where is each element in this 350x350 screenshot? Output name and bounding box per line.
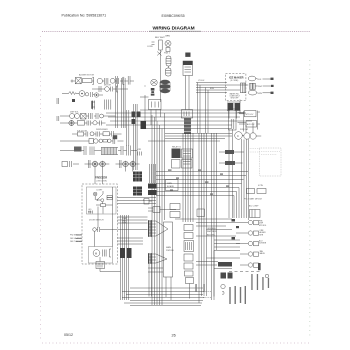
lamp star 2 bbox=[99, 161, 105, 167]
svg-text:MAIN: MAIN bbox=[167, 182, 173, 185]
wire vertical main bbox=[161, 50, 169, 102]
tiny box far left bbox=[144, 199, 149, 205]
vertical bus pair left-mid bbox=[116, 76, 118, 128]
page border dotted bottom bbox=[42, 342, 310, 344]
svg-text:Publication No: 5995813071: Publication No: 5995813071 bbox=[62, 14, 107, 18]
last plug dark label bbox=[258, 263, 261, 270]
top horizontal lines center bbox=[148, 134, 232, 142]
freezer bottom box bbox=[96, 262, 105, 269]
svg-text:(8 CUBE): (8 CUBE) bbox=[231, 80, 239, 82]
compressor circles bbox=[235, 132, 243, 140]
row7 hatch bbox=[113, 137, 115, 144]
svg-text:MAIN: MAIN bbox=[166, 246, 172, 249]
row7 dumbbell bbox=[99, 139, 103, 143]
im feed vertical drops bbox=[198, 83, 209, 134]
bus drop to comb row bbox=[127, 110, 129, 146]
svg-text:DISPENSER: DISPENSER bbox=[96, 129, 108, 131]
connector pair hatched B bbox=[105, 100, 111, 110]
water valve box 1 bbox=[245, 111, 257, 117]
strain relief circle bbox=[165, 41, 171, 47]
freezer sub box pair bbox=[107, 196, 112, 198]
svg-text:26: 26 bbox=[172, 334, 176, 338]
connector hatch pair bbox=[104, 78, 108, 84]
star drops to freezer bbox=[95, 167, 133, 184]
svg-text:VALVE: VALVE bbox=[260, 252, 266, 255]
freezer comp bbox=[101, 204, 106, 207]
connector hatch bbox=[117, 78, 119, 84]
dark dash row bbox=[218, 262, 232, 267]
small box pair bottom bbox=[250, 210, 261, 218]
label above relay bbox=[185, 53, 190, 57]
svg-text:BOARD: BOARD bbox=[167, 185, 175, 188]
freezer switch bbox=[97, 194, 103, 200]
wire fan arrow 2 bbox=[148, 253, 167, 264]
small boxes left bbox=[172, 160, 181, 169]
wire end glyphs bbox=[271, 78, 274, 80]
power cord plug stack bbox=[160, 80, 171, 93]
row3 circle bbox=[85, 93, 88, 96]
lamp star 4 bbox=[130, 161, 136, 167]
row4 crossed box bbox=[81, 114, 87, 120]
freezer cross wires mid bbox=[118, 238, 144, 244]
capsule connector 2 bbox=[166, 68, 172, 76]
feeder lines into C bbox=[150, 164, 156, 183]
crossed box switch bbox=[75, 78, 81, 84]
row7 box+circle bbox=[89, 139, 94, 144]
terminal strip column bbox=[184, 225, 194, 277]
row8 left box bbox=[62, 162, 68, 167]
row4 comp bbox=[96, 113, 98, 119]
freezer dashed box bbox=[82, 184, 118, 264]
tall control box bbox=[164, 222, 173, 277]
thermistor circle bbox=[221, 284, 225, 288]
row2 components bbox=[99, 86, 101, 92]
wire drops from junction bbox=[151, 110, 161, 126]
svg-text:M: M bbox=[95, 252, 97, 255]
ground glyph stack bbox=[151, 88, 155, 91]
svg-text:BLK: BLK bbox=[258, 79, 262, 81]
horizontal harness center-right bbox=[156, 172, 248, 196]
box pair right mid bbox=[247, 189, 255, 194]
bracket right bbox=[121, 146, 123, 155]
lamp star 3 bbox=[120, 160, 129, 168]
svg-text:LIGHT: LIGHT bbox=[97, 190, 104, 192]
power switch capsule bbox=[166, 56, 171, 66]
row2 group circle bbox=[105, 87, 110, 92]
row3 resistor squiggle bbox=[69, 92, 77, 95]
wire fan arrow 1 bbox=[148, 220, 168, 237]
svg-text:C: C bbox=[237, 134, 239, 138]
svg-text:±±: ±± bbox=[144, 86, 146, 88]
fan lower verticals bbox=[148, 264, 163, 297]
im ellipse bbox=[248, 90, 256, 95]
wires from labels to compressor col bbox=[219, 152, 244, 163]
hatched block below junction bbox=[184, 118, 191, 134]
relay cluster dark box bbox=[172, 149, 181, 159]
freezer light sub-box bbox=[87, 187, 117, 214]
freezer top wires right bbox=[118, 198, 157, 204]
svg-text:GRN: GRN bbox=[258, 93, 263, 95]
svg-text:ICE MAKER: ICE MAKER bbox=[229, 76, 244, 80]
rotated labels bottom center bbox=[195, 284, 204, 292]
page border dotted right bbox=[309, 60, 311, 336]
bracket bbox=[110, 249, 112, 257]
row5 hatch bbox=[87, 121, 91, 126]
svg-text:DISP SOL: DISP SOL bbox=[70, 112, 79, 114]
mold heater hatch bbox=[240, 83, 246, 93]
svg-text:SHUTOFF: SHUTOFF bbox=[231, 98, 239, 100]
title underline darker segment bbox=[149, 30, 201, 32]
row5 comp bbox=[100, 121, 102, 126]
svg-text:HTR SOL: HTR SOL bbox=[259, 225, 266, 227]
connector pair hatched A bbox=[92, 101, 95, 110]
dark connector pair C2 bbox=[148, 190, 157, 195]
light dotted region right bbox=[260, 148, 282, 176]
dark connector blob B2 bbox=[127, 248, 132, 258]
comb band dense bbox=[101, 148, 118, 155]
hatch pair right bbox=[127, 146, 131, 156]
dark bar bbox=[91, 101, 93, 109]
row4 hatch bbox=[89, 113, 93, 119]
lamp star bbox=[69, 120, 75, 126]
right col vertical bbox=[258, 111, 261, 130]
right horizontal wires mid-bottom bbox=[214, 240, 240, 251]
wires to plugs bbox=[232, 223, 248, 266]
bus connector blobs bbox=[132, 112, 136, 118]
fan hatch bbox=[103, 250, 107, 257]
bracket bbox=[92, 77, 93, 84]
motor circle M1 bbox=[97, 78, 102, 83]
junction box bbox=[149, 100, 162, 110]
im vertical wires bbox=[229, 100, 253, 134]
svg-text:WTR VLV: WTR VLV bbox=[246, 114, 255, 116]
wire row1 bbox=[92, 80, 134, 82]
wires freezer to right bbox=[118, 217, 148, 230]
harness drops right bbox=[234, 188, 239, 219]
row3 bits bbox=[91, 92, 93, 97]
freezer circle 2 bbox=[101, 199, 104, 202]
motor circle M2 bbox=[110, 78, 115, 83]
svg-text:WIRING DIAGRAM: WIRING DIAGRAM bbox=[153, 26, 195, 32]
wires row4/5 bbox=[60, 116, 116, 123]
svg-text:MOTOR: MOTOR bbox=[104, 85, 112, 87]
small dark mark bbox=[72, 99, 75, 102]
wire id ticks on harness bbox=[168, 170, 229, 195]
freezer fan sub-box bbox=[89, 247, 113, 264]
svg-text:05/12: 05/12 bbox=[64, 333, 73, 337]
dotted bundle tails bbox=[203, 292, 212, 298]
plug labels bbox=[259, 221, 267, 256]
svg-text:4 PIN: 4 PIN bbox=[258, 185, 263, 187]
resistor horizontal bbox=[82, 79, 92, 83]
wires from relay down double bbox=[186, 76, 189, 110]
wires right area bbox=[242, 121, 261, 136]
svg-text:BRN: BRN bbox=[210, 88, 215, 90]
relay box R1 top dark bbox=[183, 61, 193, 76]
fan motor circle bbox=[93, 250, 100, 257]
fuse F1 vertical body bbox=[159, 40, 163, 50]
freezer bottom exit wire bbox=[100, 269, 121, 272]
extra cross wires to plug column bbox=[196, 223, 240, 269]
tall narrow box below bbox=[229, 109, 237, 130]
wire row2 bbox=[92, 88, 128, 90]
dark connector blob A2 bbox=[133, 187, 142, 196]
top cross wire bbox=[175, 218, 232, 220]
vertical bus right of freezer bbox=[121, 215, 129, 300]
svg-text:WHT: WHT bbox=[258, 86, 263, 88]
main horizontal bus bbox=[106, 110, 246, 129]
small glyphs above rotated labels bbox=[229, 271, 260, 273]
row3 filled circle bbox=[94, 93, 98, 97]
cap pair bbox=[128, 76, 130, 85]
svg-text:EI09BC09KS5: EI09BC09KS5 bbox=[162, 14, 185, 18]
stacked boxes below center bbox=[170, 204, 180, 210]
svg-text:A/C COMP: A/C COMP bbox=[249, 205, 259, 208]
row6 comps bbox=[78, 132, 84, 136]
ground circle G bbox=[151, 79, 157, 85]
bottom horizontal bundle bbox=[122, 288, 205, 306]
freezer lamp bbox=[93, 192, 97, 196]
small connector bottom left bbox=[89, 211, 93, 214]
small box below strip bbox=[186, 278, 194, 284]
row4 circle pair bbox=[70, 114, 75, 119]
svg-text:PTC START DEVICE: PTC START DEVICE bbox=[244, 198, 263, 201]
junction sub box bbox=[182, 110, 193, 119]
freezer inner wires bbox=[95, 187, 113, 262]
dark connector blob A1 bbox=[133, 172, 142, 182]
water valve box 2 bbox=[246, 121, 257, 128]
relay box 3 bbox=[182, 160, 193, 169]
svg-text:P&N 1: P&N 1 bbox=[164, 53, 171, 55]
hatch pair bbox=[90, 147, 94, 156]
comb band bracket bbox=[84, 146, 86, 155]
im transformer square pair bbox=[250, 83, 253, 89]
lamp star 1 bbox=[89, 160, 99, 168]
compressor drop wires bbox=[242, 139, 249, 220]
power col side ticks bbox=[152, 42, 155, 45]
ticks between bbox=[238, 113, 246, 125]
page border dotted left bbox=[40, 36, 42, 342]
svg-text:LT BLU: LT BLU bbox=[198, 80, 205, 82]
junction connector dark bbox=[141, 121, 147, 129]
connector stack small bbox=[166, 48, 170, 52]
svg-text:RELAY K1: RELAY K1 bbox=[172, 146, 181, 149]
dark connector blob B1 bbox=[120, 248, 125, 258]
ice maker dashed box bbox=[226, 74, 246, 101]
lamp circle w/dot bbox=[79, 91, 85, 97]
dark tick marks top of quad bbox=[232, 219, 236, 222]
bowtie X below fuse bbox=[157, 52, 161, 56]
side wire left of junction bbox=[140, 95, 149, 128]
svg-text:RUN CAP: RUN CAP bbox=[240, 128, 249, 131]
vertical bus pair 2 bbox=[122, 78, 126, 128]
freezer mid connector bbox=[93, 228, 97, 232]
svg-text:ICE MKR: ICE MKR bbox=[259, 243, 267, 245]
dark connector pair C1 bbox=[148, 184, 157, 189]
svg-text:FREEZER: FREEZER bbox=[95, 176, 107, 180]
small box left of stack bbox=[153, 207, 160, 213]
svg-text:BLK WHT: BLK WHT bbox=[155, 37, 165, 39]
control board box bbox=[166, 180, 179, 191]
svg-text:PWR BD: PWR BD bbox=[166, 250, 175, 252]
im motor ellipse top bbox=[248, 76, 256, 81]
dark blob pair bottom bbox=[221, 273, 227, 279]
relay box 2 bbox=[182, 149, 193, 158]
svg-text:CORD: CORD bbox=[147, 46, 153, 48]
svg-text:AUGER MOTOR: AUGER MOTOR bbox=[79, 74, 95, 77]
below ice maker dark connector pair bbox=[228, 103, 234, 110]
row5 box bbox=[78, 121, 85, 126]
svg-text:GRN: GRN bbox=[165, 36, 170, 38]
svg-text:(ON DOOR): (ON DOOR) bbox=[97, 181, 108, 183]
labels right dark bbox=[225, 150, 234, 154]
wire row1 stub tick bbox=[71, 80, 76, 83]
bottom connector bits bbox=[166, 251, 214, 304]
vertical bus right of rows bbox=[134, 104, 138, 170]
svg-text:WHT RED: WHT RED bbox=[207, 231, 217, 233]
svg-text:AUX VLV: AUX VLV bbox=[247, 123, 255, 126]
rotated labels bottom right bbox=[229, 274, 269, 304]
row5 circle bbox=[93, 121, 97, 125]
left column small bits bbox=[57, 98, 59, 104]
bracket bbox=[117, 86, 119, 92]
svg-text:HTR: HTR bbox=[137, 149, 142, 151]
comb band label box bbox=[74, 147, 82, 152]
svg-text:DOOR SWITCH: DOOR SWITCH bbox=[89, 220, 104, 222]
wires im left bbox=[196, 83, 248, 93]
bracket right bbox=[123, 77, 124, 84]
row7 dark box bbox=[113, 135, 117, 139]
page border dotted top bbox=[42, 31, 310, 33]
